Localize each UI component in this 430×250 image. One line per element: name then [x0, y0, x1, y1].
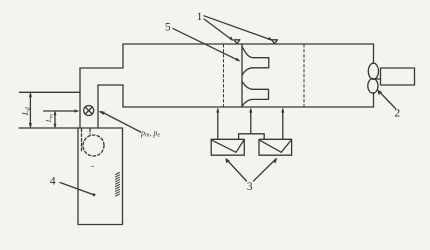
duct right wall upper segment: [373, 44, 375, 63]
dimension Ld line with arrows: [29, 92, 31, 128]
leader from label 3 to left injector: [226, 158, 247, 181]
svg-text:1: 1: [197, 11, 203, 23]
inlet connector top wall: [80, 67, 123, 69]
manifold bracket: [239, 134, 265, 139]
fan shaft link: [374, 78, 381, 80]
leader from label 5 to nozzle plate: [173, 29, 240, 62]
injection arrow left: [217, 108, 219, 139]
injector box right: [259, 139, 292, 155]
svg-text:3: 3: [247, 181, 253, 193]
duct bottom wall: [123, 106, 374, 108]
leader from label 1 to right triangle: [204, 16, 273, 41]
injection arrow right: [282, 108, 284, 139]
svg-text:Ld: Ld: [20, 106, 32, 116]
leader from pm pe label to pipe wall: [99, 112, 141, 133]
leader from label 2 to fan: [378, 90, 396, 109]
svg-text:Lm: Lm: [44, 114, 55, 123]
nozzle plate spine: [241, 44, 243, 107]
upper bellmouth nozzle 5: [242, 46, 269, 75]
inlet connector bottom wall: [98, 84, 123, 86]
duct left wall upper segment: [122, 44, 124, 68]
hidden pipe inside tank (dashed): [82, 129, 91, 151]
leader from label 1 to left triangle: [204, 19, 233, 41]
leader from label 4 to tank dot: [60, 183, 95, 197]
screen coil on tank right wall: [116, 173, 120, 197]
measurement height line with right arrow: [44, 110, 79, 112]
tank 4 outline: [78, 128, 123, 225]
tank top extension line: [19, 127, 78, 129]
dimension Lm line with arrows: [54, 111, 56, 128]
dashed screen line left in duct: [223, 45, 225, 107]
svg-text:5: 5: [165, 21, 171, 33]
svg-text:pm, pe: pm, pe: [140, 128, 160, 138]
duct right wall lower segment: [373, 93, 375, 108]
riser pipe right wall: [97, 85, 99, 128]
svg-text:4: 4: [50, 176, 56, 188]
level triangle right: [272, 40, 278, 44]
valve (circle with cross) on riser pipe: [84, 106, 94, 116]
leader from label 3 to right injector: [254, 158, 278, 181]
duct left wall lower segment: [122, 85, 124, 107]
injector box left: [211, 139, 244, 155]
injection arrow middle: [250, 108, 252, 134]
small speck in tank: [92, 165, 95, 167]
duct top wall: [123, 43, 374, 45]
pump circle inside tank (dashed): [83, 135, 104, 156]
dashed screen line right in duct: [303, 45, 305, 107]
dimension extension line upper: [20, 91, 81, 93]
svg-text:2: 2: [394, 107, 400, 119]
fan 2 lower blade: [368, 79, 378, 94]
fan 2 upper blade: [368, 63, 378, 79]
riser pipe left wall: [79, 68, 81, 128]
motor box: [381, 68, 415, 85]
lower bellmouth nozzle: [242, 81, 269, 106]
level triangle left: [234, 40, 240, 44]
